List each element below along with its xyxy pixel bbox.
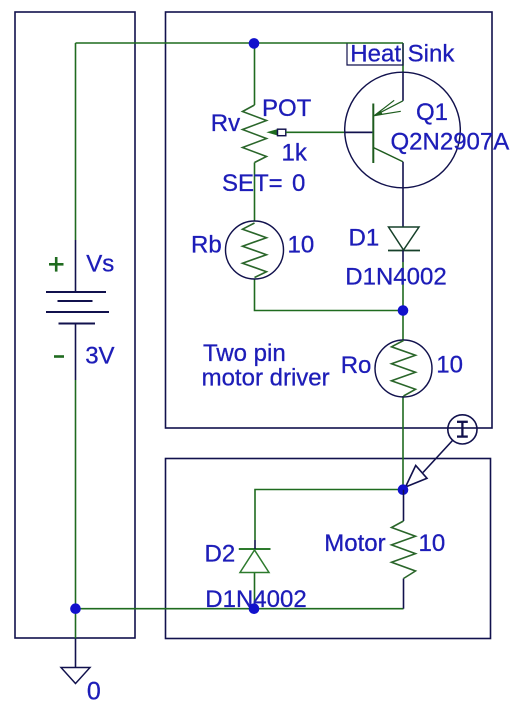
wire Rb bottom to node B — [255, 279, 404, 311]
transistor Q1 circle — [345, 72, 461, 188]
node D junction dot (D2 bottom) — [249, 603, 260, 614]
svg-text:Two pin: Two pin — [203, 340, 286, 367]
wire bottom rail — [76, 608, 404, 610]
svg-text:10: 10 — [288, 232, 315, 259]
wire ground stub — [75, 609, 77, 639]
wire POT bottom to Rb — [254, 163, 256, 222]
svg-text:10: 10 — [419, 530, 446, 557]
wire battery minus down — [75, 324, 77, 381]
svg-text:0: 0 — [87, 677, 101, 705]
motor resistor leads — [403, 490, 405, 521]
svg-text:Motor: Motor — [324, 530, 385, 557]
battery enclosure box — [15, 12, 135, 638]
current probe — [448, 415, 477, 444]
Q1 base lead — [345, 131, 372, 133]
svg-text:Ro: Ro — [341, 352, 372, 379]
pot wiper arrow — [266, 129, 278, 136]
resistor Rb circle — [226, 221, 284, 279]
wire top rail — [76, 42, 404, 44]
battery minus sign — [54, 355, 64, 358]
Q1 emitter diagonal with arrow — [374, 100, 403, 115]
wire D2 bottom — [254, 573, 256, 610]
motor enclosure box (bottom) — [166, 459, 491, 639]
svg-text:Rv: Rv — [211, 110, 240, 137]
battery plus sign — [49, 257, 64, 272]
wire battery plus up — [75, 240, 77, 292]
resistor Ro zigzag — [392, 341, 416, 397]
svg-text:POT: POT — [262, 95, 312, 122]
resistor Ro circle — [375, 340, 432, 397]
probe pointer shaft — [423, 441, 453, 473]
motor resistor zigzag — [392, 521, 416, 579]
svg-text:3V: 3V — [85, 343, 114, 370]
svg-text:1k: 1k — [282, 140, 308, 167]
wire Ro bottom to node C — [402, 396, 404, 490]
svg-text:D1: D1 — [349, 224, 380, 251]
Q1 collector diagonal — [373, 148, 403, 162]
svg-text:SET=: SET= — [222, 170, 283, 197]
wire POT top drop — [254, 43, 256, 105]
Q1 base bar — [372, 104, 374, 164]
wire node B to Ro — [402, 311, 404, 341]
wire Q1 emitter drop — [402, 43, 404, 73]
svg-text:D2: D2 — [205, 541, 236, 568]
svg-text:D1N4002: D1N4002 — [345, 263, 446, 290]
diode D2 — [239, 549, 271, 573]
svg-text:0: 0 — [292, 170, 305, 197]
svg-text:motor driver: motor driver — [202, 364, 330, 391]
svg-text:Vs: Vs — [86, 251, 114, 278]
svg-text:Q2N2907A: Q2N2907A — [391, 129, 510, 156]
Q1 collector lead (bottom) — [402, 162, 404, 227]
svg-text:Q1: Q1 — [416, 99, 448, 126]
node B junction dot — [398, 305, 409, 316]
probe pointer arrowhead — [406, 466, 428, 488]
node C junction dot — [398, 484, 409, 495]
node A junction dot (top) — [249, 38, 260, 49]
battery Vs plates — [46, 292, 109, 324]
ground symbol — [61, 668, 90, 684]
resistor Rb zigzag — [243, 223, 267, 278]
heat sink tab rect — [347, 44, 403, 66]
Q1 emitter lead (top, inside circle) — [402, 72, 404, 101]
wire node C to D2 top — [255, 490, 403, 541]
svg-text:Heat Sink: Heat Sink — [350, 40, 455, 67]
svg-text:10: 10 — [436, 351, 463, 378]
node E junction dot (battery bottom) — [70, 603, 81, 614]
diode D1 — [388, 227, 420, 251]
wire wiper to Q1 base — [286, 131, 345, 133]
svg-text:Rb: Rb — [191, 232, 222, 259]
driver enclosure box (top) — [166, 12, 493, 428]
wire D1 cathode to node B — [402, 262, 404, 311]
potentiometer Rv zigzag — [243, 105, 267, 163]
